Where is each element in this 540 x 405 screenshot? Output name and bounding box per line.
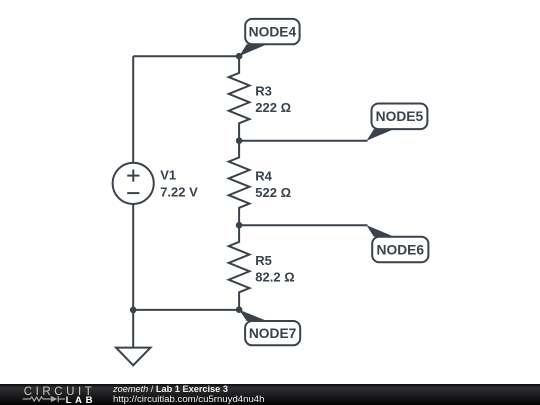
node NODE7 junction right — [236, 306, 243, 313]
R5 value label — [255, 253, 294, 285]
svg-text:LAB: LAB — [66, 395, 97, 405]
svg-text:222 Ω: 222 Ω — [255, 100, 291, 115]
svg-text:V1: V1 — [160, 167, 176, 182]
CircuitLab logo — [0, 384, 110, 405]
node NODE4 junction — [236, 53, 243, 60]
resistor R4 — [229, 141, 250, 226]
wire node3 to NODE6 flag — [239, 224, 367, 226]
svg-text:NODE6: NODE6 — [377, 242, 425, 257]
wire ground stem — [132, 310, 134, 348]
net flag NODE7 — [239, 310, 300, 346]
wire bottom rail — [133, 309, 239, 311]
svg-text:R5: R5 — [255, 253, 272, 268]
V1 value label — [160, 167, 198, 199]
net flag NODE4 — [239, 19, 300, 56]
node NODE5 junction — [236, 137, 243, 144]
footer bar — [0, 384, 540, 405]
svg-text:NODE7: NODE7 — [249, 326, 297, 341]
voltage source V1 — [113, 163, 154, 204]
svg-text:R4: R4 — [255, 168, 272, 183]
svg-text:NODE5: NODE5 — [376, 109, 424, 124]
resistor R5 — [229, 225, 250, 310]
footer title text — [113, 384, 533, 405]
R4 value label — [255, 168, 291, 200]
net flag NODE6 — [367, 225, 429, 262]
svg-text:R3: R3 — [255, 84, 272, 99]
wire top rail — [133, 55, 239, 57]
svg-text:NODE4: NODE4 — [249, 24, 297, 39]
svg-text:82.2 Ω: 82.2 Ω — [255, 270, 294, 285]
node NODE7 junction — [130, 307, 137, 314]
wire left rail lower — [132, 204, 134, 310]
R3 value label — [255, 84, 291, 116]
net flag NODE5 — [367, 104, 428, 141]
wire left rail upper — [132, 56, 134, 163]
svg-text:7.22 V: 7.22 V — [160, 185, 198, 200]
svg-text:522 Ω: 522 Ω — [255, 185, 291, 200]
wire node2 to NODE5 flag — [239, 140, 367, 142]
resistor R3 — [229, 56, 250, 141]
ground — [116, 348, 151, 366]
node NODE6 junction — [236, 222, 243, 229]
